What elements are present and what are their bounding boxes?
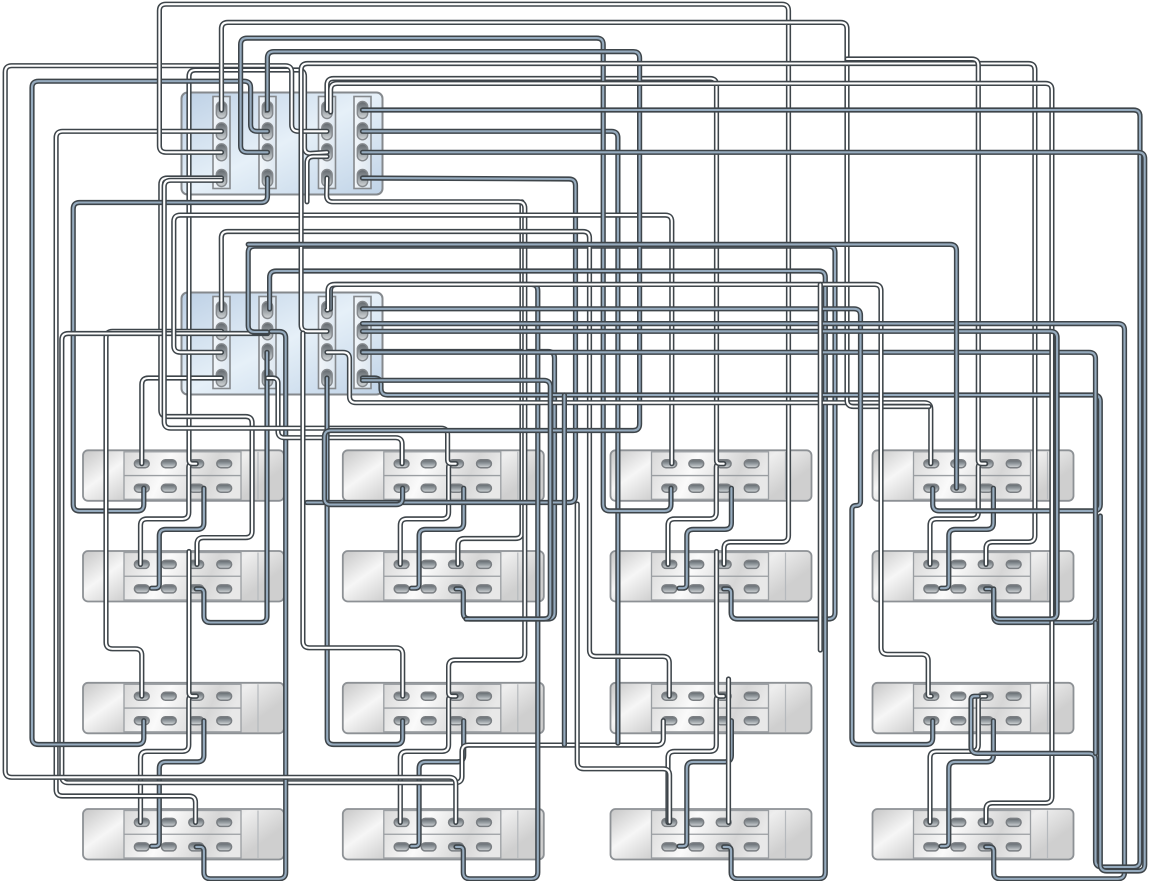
cable C2S3P3 -> K4R1-A1 xyxy=(327,352,931,463)
cable B-link K4 rows34 xyxy=(941,721,993,847)
disk shelf K4R3 xyxy=(873,683,1074,734)
cable C2S3P2 -> K4R2-A3 xyxy=(301,64,1035,565)
cable A-link K2 rows12 xyxy=(400,464,456,565)
cable C2S4P4 -> K4R1-B1 xyxy=(363,378,1101,511)
disk shelf K1R4 xyxy=(83,809,284,860)
cable C1S1P4b -> K2R1-A3 feed xyxy=(164,180,456,463)
disk shelf K1R3 xyxy=(83,683,284,734)
cable C2S4P4b -> K2R2b xyxy=(363,380,551,619)
cable C2S2P4 -> K2R1-A1 xyxy=(268,378,403,464)
cable x522 -> K2R2-A3 xyxy=(458,202,522,565)
cable K3R2-B3 ret -> C2S2P2tip xyxy=(248,246,835,619)
cable x820 strand xyxy=(818,284,823,650)
disk shelf K2R1 xyxy=(343,450,544,501)
cable C1S3P1b -> K4R4-A3 xyxy=(331,83,1052,822)
disk shelf K3R3 xyxy=(611,683,812,734)
cable B-link K1 rows12 xyxy=(152,488,204,588)
cable C1S4P4 bline xyxy=(307,178,576,503)
cable A-link K4 rows34 xyxy=(930,696,986,822)
disk shelf K1R1 xyxy=(83,450,284,501)
cable C2S4P2 -> K4R2b xyxy=(363,331,1058,619)
disk shelf K1R2 xyxy=(83,551,284,602)
cable A-link K3 rows34 xyxy=(668,696,724,822)
cable C2S3P1 -> K4R3-A1 xyxy=(327,284,931,696)
cable C1S3P4 -> K2R3-A3 xyxy=(327,178,525,696)
cable x577 zigzag -> K3R4-A1b xyxy=(577,504,669,822)
cable A-link K1 rows12 xyxy=(141,464,197,565)
cable B-link K3 rows34 xyxy=(679,721,731,847)
cable K4R2-B3 ret -> C2S4P3 xyxy=(363,352,1096,622)
cable x564 strand xyxy=(562,395,567,745)
cable C1S1P4a -> K1R2-A3 xyxy=(161,178,252,564)
cable K1R2-B3 ret -> C2S2P3 xyxy=(196,352,267,622)
disk shelf K4R4 xyxy=(873,809,1074,860)
cable C1S4P1 right xyxy=(363,110,1141,867)
cable C1S2P1 -> K2R1-B1 xyxy=(267,52,639,505)
disk shelf K2R3 xyxy=(343,683,544,734)
cable C2S1P1 -> K3R3-A1 xyxy=(221,232,669,697)
disk shelf K4R1 xyxy=(873,450,1074,501)
cable A-link K1 rows34 xyxy=(141,696,197,822)
cable B-link K1 rows34 xyxy=(152,721,204,847)
disk shelf K4R2 xyxy=(873,551,1074,602)
disk shelf K3R1 xyxy=(611,450,812,501)
cable K1R3-A3 feed xyxy=(189,552,196,697)
cable C2S4P1 -> K4R3-B1 xyxy=(363,309,933,745)
controller 1 xyxy=(182,93,383,195)
disk shelf K3R4 xyxy=(611,809,812,860)
cable C2S1P2a -> K1R3-A1 xyxy=(106,331,222,696)
cable K2R2-B3 ret -> C2S3P3 xyxy=(363,352,555,620)
cable C1S4P3 right xyxy=(363,152,1145,871)
cable C2S1P4 -> K1R1-A1 xyxy=(142,378,222,464)
cable C1S1P1 -> K4R1-A1b xyxy=(221,22,929,406)
cable C1S4P2 deep xyxy=(363,131,618,743)
cable B-link K2 rows12 xyxy=(411,488,463,588)
cable B-link K3 rows12 xyxy=(679,488,731,588)
disk shelf K3R2 xyxy=(611,551,812,602)
cable K4R4-B3 ret -> C2S4P1b xyxy=(363,324,1125,879)
cable B-link K4 rows12 xyxy=(941,488,993,588)
cable C1S2P2 -> K1R3-B1 xyxy=(32,81,268,744)
cable C1S3P3b stub xyxy=(307,157,327,202)
cable K3R3-A3 feed xyxy=(717,552,724,697)
cable C1S1P2 -> K1R4-A3 xyxy=(56,131,221,822)
cable y244 line -> K4R1-B2 xyxy=(248,244,956,488)
disk shelf K2R4 xyxy=(343,809,544,860)
cable A-link K2 rows34 xyxy=(400,696,456,822)
cable C2S1P3 -> K3R1-A1 xyxy=(174,215,672,464)
cable C1S2P3 -> K3R1-B1 xyxy=(241,38,671,511)
cable C1S3P1a -> K3R1-A3 xyxy=(327,79,724,464)
cable B-link K2 rows34 xyxy=(411,721,463,847)
disk shelf K2R2 xyxy=(343,551,544,602)
cable x1095 strand xyxy=(1093,623,1098,754)
cable x303 -> K2R3-A1 xyxy=(303,333,403,696)
cable K4R1-A3 feed xyxy=(847,59,986,464)
cable C1S1P3 -> K3R2-A3 xyxy=(159,4,788,564)
cable C1S3P3a -> K1R1-A3 feed xyxy=(189,70,327,464)
cable K1R4-B3 ret -> C2S2P2 xyxy=(196,332,286,879)
cable A-link K3 rows12 xyxy=(668,464,724,565)
cable A-link K4 rows12 xyxy=(930,464,986,565)
cable K2R4-B3 ret -> C2S3P1tip xyxy=(330,284,537,878)
cable C1S3P2 Aline -> K2R4-A3 xyxy=(5,66,456,823)
cable C2S1P2b -> K3R3-B1 xyxy=(62,334,664,783)
cable C2S3P4 -> K2R3-B1 xyxy=(327,378,403,745)
cable K3R4-A3 feed xyxy=(726,679,731,822)
cable K3R4-B3 ret -> C2S2P1 xyxy=(270,271,826,879)
cable C1S2P4 -> K1R1-B1 xyxy=(73,178,267,511)
controller 2 xyxy=(182,293,383,395)
